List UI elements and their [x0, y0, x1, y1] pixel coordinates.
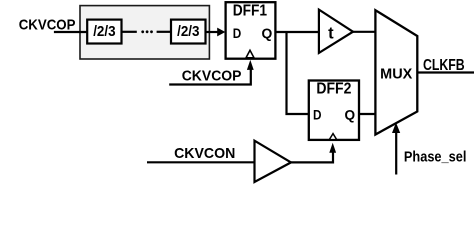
- svg-text:D: D: [313, 108, 322, 124]
- mux MUX (2:1 phase select): [375, 10, 417, 134]
- svg-text:t: t: [328, 24, 334, 42]
- svg-text:DFF2: DFF2: [316, 81, 351, 98]
- svg-text:Phase_sel: Phase_sel: [404, 148, 467, 165]
- wire t-buffer to MUX input 0: [353, 31, 375, 33]
- DFF1 clock triangle symbol: [246, 50, 254, 58]
- wire DFF1 Q output to t-buffer: [275, 31, 319, 33]
- wire CKVCOP to first divider: [54, 31, 88, 33]
- buffer t (delay buffer): [319, 10, 353, 53]
- wire CKVCON to buffer: [147, 161, 255, 163]
- wire DFF2 Q output to MUX input 1: [359, 113, 375, 115]
- svg-text:CKVCON: CKVCON: [174, 145, 235, 162]
- ellipsis dots between dividers: [141, 30, 144, 33]
- wire CKVCOP clock to DFF1 clock pin (with up arrowhead): [169, 68, 251, 85]
- svg-text:CKVCOP: CKVCOP: [182, 69, 242, 85]
- wire stage1 to dots: [122, 31, 137, 33]
- svg-text:Q: Q: [262, 26, 273, 42]
- svg-text:/2/3: /2/3: [177, 24, 199, 40]
- divider /2/3 stage 2: [171, 20, 206, 44]
- wire branch down to DFF2 D: [287, 32, 310, 114]
- wire buffer to DFF2 clock pin (with up arrowhead): [291, 151, 333, 162]
- svg-text:CKVCOP: CKVCOP: [19, 16, 76, 33]
- wire divider chain to DFF1 D input (with arrowhead): [206, 31, 219, 33]
- buffer (CKVCON clock buffer): [255, 141, 292, 182]
- wire Phase_sel select into MUX bottom (with up arrowhead): [395, 132, 397, 175]
- DFF2 clock triangle symbol: [329, 134, 336, 140]
- svg-text:DFF1: DFF1: [233, 3, 268, 20]
- svg-text:Q: Q: [345, 108, 356, 124]
- flip-flop DFF2: [309, 81, 359, 140]
- divider /2/3 stage 1: [87, 20, 121, 44]
- divider chain enclosure (gray box): [80, 6, 209, 59]
- svg-text:D: D: [233, 26, 242, 42]
- svg-text:MUX: MUX: [380, 66, 412, 82]
- wire dots to stage2: [157, 31, 171, 33]
- svg-text:/2/3: /2/3: [93, 24, 115, 40]
- flip-flop DFF1: [226, 2, 276, 59]
- wire MUX output CLKFB: [417, 71, 474, 73]
